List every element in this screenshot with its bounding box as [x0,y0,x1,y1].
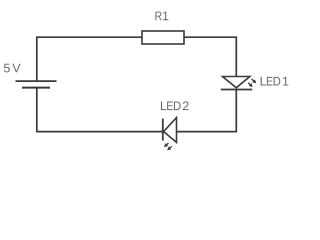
label LED1 [261,77,289,86]
label R1 [155,12,168,21]
wire top-right: resistor R1 right terminal to LED1 anode [184,37,236,76]
battery BT1 5V positive plate [16,80,57,82]
label LED2 [161,101,189,110]
LED1 diode triangle (anode, pointing down) [223,77,250,88]
wire bottom-left: LED2 cathode to battery - terminal [37,88,163,132]
resistor R1 body [142,31,184,44]
wire top-left: battery + to resistor R1 left terminal [37,37,142,81]
LED1 emission arrows [248,79,256,87]
LED2 emission arrows [164,143,172,150]
LED2 cathode bar [162,119,164,141]
battery BT1 5V negative plate [22,87,50,89]
label 5 V (battery value) [4,64,21,73]
LED2 diode triangle (anode, pointing left) [164,118,177,143]
wire right-lower: LED1 cathode down to bottom net [177,90,237,132]
LED1 cathode bar [221,89,252,91]
